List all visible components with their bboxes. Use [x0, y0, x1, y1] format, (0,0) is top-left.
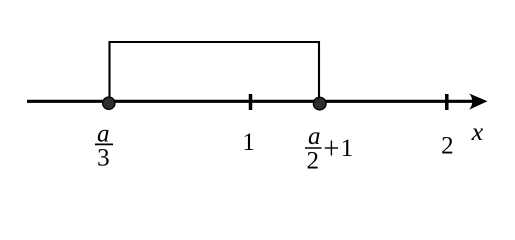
plus sign horizontal stroke: [325, 147, 338, 149]
arrowhead: [469, 94, 487, 110]
plus sign vertical stroke: [330, 141, 332, 156]
point at a/3: [103, 97, 115, 109]
svg-text:a: a: [308, 123, 321, 150]
label a/2 fraction bar: [305, 147, 322, 149]
tick mark 1: [249, 94, 253, 110]
point at a/2+1: [313, 97, 326, 110]
svg-text:3: 3: [97, 145, 110, 172]
svg-text:1: 1: [341, 135, 354, 162]
svg-text:1: 1: [242, 129, 255, 156]
label a/3 fraction bar: [95, 143, 113, 145]
interval bracket from a/3 to a/2+1: [110, 42, 320, 101]
svg-text:2: 2: [306, 148, 319, 175]
svg-text:a: a: [97, 121, 110, 148]
svg-text:2: 2: [441, 133, 454, 160]
tick mark 2: [445, 94, 449, 110]
number line axis: [27, 100, 480, 103]
svg-text:x: x: [471, 119, 484, 146]
